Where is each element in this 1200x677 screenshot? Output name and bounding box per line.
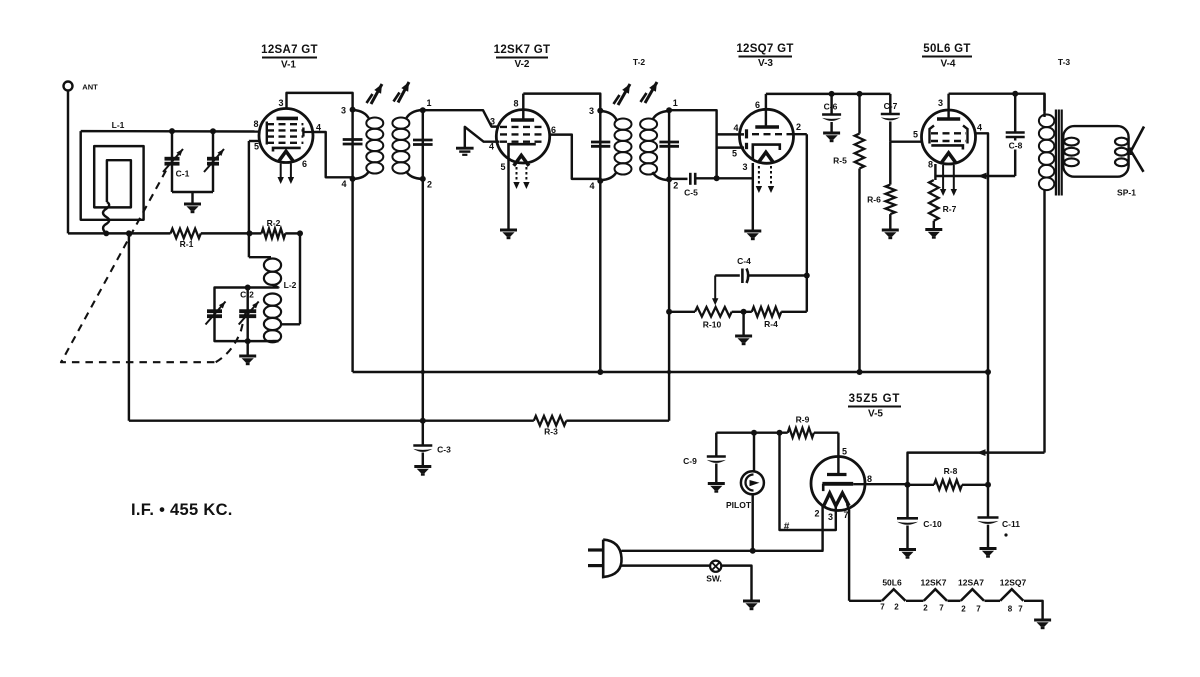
ground C-11 xyxy=(980,547,997,550)
node cathode C-10 xyxy=(905,482,911,488)
svg-text:7: 7 xyxy=(976,605,981,614)
node bus right end xyxy=(985,369,991,375)
wire B+ bus xyxy=(353,371,988,373)
svg-text:50L6 GT: 50L6 GT xyxy=(923,43,970,55)
resistor R-5 xyxy=(858,94,860,134)
svg-text:R-7: R-7 xyxy=(943,204,957,214)
node T1 pin4 xyxy=(350,176,356,182)
wire V4 plate to T3 primary xyxy=(949,94,1045,111)
svg-text:C-3: C-3 xyxy=(437,445,451,455)
tube V3 12SQ7 envelope xyxy=(740,109,794,163)
ground B- xyxy=(743,600,760,603)
node bus AVC crossing a xyxy=(421,370,425,374)
tube V4 plate xyxy=(937,117,960,121)
wire AVC return down-left xyxy=(128,233,130,420)
wire switch to B- ground xyxy=(721,566,751,600)
node grid C-4 tap xyxy=(804,273,810,279)
svg-text:8: 8 xyxy=(513,99,518,109)
tube V2 plate xyxy=(511,118,534,122)
tube V5 plate xyxy=(827,473,847,476)
svg-text:C-4: C-4 xyxy=(737,256,751,266)
IF transformer T1 trimmer arrow a xyxy=(371,84,382,104)
heater 12SK7 xyxy=(924,589,947,601)
resistor R-6 xyxy=(889,142,891,185)
potentiometer R-10 wiper arrow xyxy=(714,276,716,300)
tube V4 heater arrows xyxy=(942,165,944,190)
wire AC line top xyxy=(622,550,824,552)
wire volume line xyxy=(669,311,695,313)
node T1 pin3 xyxy=(350,107,356,113)
node T1 pin1 xyxy=(420,107,426,113)
svg-text:4: 4 xyxy=(589,181,594,191)
svg-text:2: 2 xyxy=(894,603,899,612)
node bus AVC crossing b xyxy=(667,370,671,374)
wire V2 cathode to ground xyxy=(507,161,509,229)
tube V1 grids xyxy=(267,123,303,125)
junction arrow at B+ node xyxy=(977,449,986,456)
wire diode plate stub pin5 xyxy=(717,146,744,148)
ground C-3 xyxy=(414,465,431,468)
node pilot top xyxy=(751,430,757,436)
svg-text:3: 3 xyxy=(490,117,495,127)
svg-text:1: 1 xyxy=(673,98,678,108)
capacitor C-3 xyxy=(413,444,432,447)
wire V5 heater tap staple xyxy=(823,506,836,530)
wire diode plate stub pin4 xyxy=(717,133,744,135)
svg-text:PILOT: PILOT xyxy=(726,500,752,510)
tube V1 heater arrows xyxy=(280,164,282,179)
resistor R-3 xyxy=(534,416,566,426)
node R-8 right xyxy=(985,482,991,488)
ground between R-10 and R-4 xyxy=(742,312,744,335)
tube V3 diode plate b xyxy=(745,143,748,149)
svg-text:2: 2 xyxy=(961,605,966,614)
output transformer T3 secondary coil xyxy=(1064,138,1079,146)
svg-text:12SK7 GT: 12SK7 GT xyxy=(494,44,551,56)
svg-text:I.F. • 455 KC.: I.F. • 455 KC. xyxy=(131,501,233,519)
svg-text:C-7: C-7 xyxy=(884,101,898,111)
ground C-10 xyxy=(899,548,916,551)
wire V1 pin4 to T1 primary bottom xyxy=(313,132,352,177)
IF transformer T2 secondary coil xyxy=(653,111,670,120)
IF transformer T2 trimmer arrow b xyxy=(645,82,657,103)
capacitor C-8 xyxy=(1014,94,1016,132)
tube V2 plate lead to pin 8 xyxy=(522,94,524,120)
wire pilot top lead xyxy=(753,433,755,473)
node C-8 top xyxy=(1012,91,1018,97)
IF transformer T2 internal capacitor xyxy=(591,141,610,144)
svg-text:2: 2 xyxy=(673,181,678,191)
wire R-9 branch down xyxy=(780,433,823,530)
svg-text:C-8: C-8 xyxy=(1009,141,1023,151)
wire V1 pin5 stub xyxy=(249,140,260,142)
wire V2 pin6 screen to B+ xyxy=(550,135,601,179)
tube V3 heater arrows xyxy=(758,166,760,187)
svg-text:C-6: C-6 xyxy=(824,102,838,112)
wire C-7 to V4 grid xyxy=(890,140,922,142)
IF transformer T1 internal capacitor xyxy=(343,138,363,141)
wire cathode to R-8 xyxy=(908,484,935,486)
ground filament string xyxy=(1034,619,1051,622)
IF transformer T1 secondary coil xyxy=(406,110,423,119)
output transformer T3 primary coil xyxy=(1039,115,1054,128)
wire R-4 to grid line xyxy=(781,311,807,313)
antenna terminal ANT xyxy=(64,82,73,91)
svg-text:C-9: C-9 xyxy=(683,456,697,466)
wire V1 pin6 line down to coil tap xyxy=(299,233,301,324)
tube V3 cathode xyxy=(753,145,780,160)
wire T2 pin4 down to B+ bus xyxy=(599,181,601,372)
IF transformer T1 secondary capacitor xyxy=(413,139,433,142)
ground V3 cathode xyxy=(744,230,761,233)
wire V5 pin7 to filament string xyxy=(847,504,849,601)
svg-text:SP-1: SP-1 xyxy=(1117,188,1136,198)
svg-text:R-2: R-2 xyxy=(267,218,281,228)
wire T1 pin2 down to AVC xyxy=(422,179,424,446)
wire main horizontal line left section xyxy=(68,232,171,234)
ground V2 grid return xyxy=(456,147,474,150)
svg-text:3: 3 xyxy=(278,98,283,108)
wire R-9 top line xyxy=(716,431,787,433)
ground R-7 xyxy=(925,228,942,231)
wire V5 cathode pin8 xyxy=(853,483,907,485)
wire V4 cathode to R-7 xyxy=(934,164,936,180)
wire V1 pin5 down to oscillator coil xyxy=(248,141,250,257)
node T2 pin2 xyxy=(666,176,672,182)
resistor R-7 xyxy=(929,180,939,221)
svg-text:C-1: C-1 xyxy=(176,169,190,179)
tube V4 beam plate left xyxy=(930,126,935,144)
svg-text:3: 3 xyxy=(589,106,594,116)
tube V3 plate lead pin6 xyxy=(765,94,767,127)
svg-text:2: 2 xyxy=(427,180,432,190)
wire filament 2-3 xyxy=(948,600,961,602)
loop antenna L-1 xyxy=(81,131,144,220)
tube V4 cathode xyxy=(931,145,963,149)
tube V5 35Z5 envelope xyxy=(811,457,865,511)
svg-text:12SK7: 12SK7 xyxy=(921,578,947,588)
resistor R-8 xyxy=(934,480,962,490)
svg-text:4: 4 xyxy=(977,123,982,133)
node C-6 top xyxy=(829,91,835,97)
svg-text:C-5: C-5 xyxy=(684,188,698,198)
svg-text:8: 8 xyxy=(253,119,258,129)
svg-text:2: 2 xyxy=(796,122,801,132)
tube V1 grid bracket left xyxy=(266,122,268,145)
svg-text:50L6: 50L6 xyxy=(882,578,902,588)
tube V4 grids xyxy=(931,132,966,134)
tube V1 heater xyxy=(278,151,293,162)
potentiometer R-10 xyxy=(695,307,732,317)
tuning capacitor C-1 section b xyxy=(212,131,214,192)
svg-text:12SQ7: 12SQ7 xyxy=(1000,578,1027,588)
wire T2 pin1 to diode plates xyxy=(669,110,717,178)
tube V4 50L6 envelope xyxy=(922,110,976,164)
node T2 pin3 xyxy=(597,108,603,114)
wire filament 3-4 xyxy=(985,600,1001,602)
svg-text:6: 6 xyxy=(755,100,760,110)
tube V3 heater xyxy=(758,152,773,163)
svg-text:8: 8 xyxy=(928,160,933,170)
svg-text:12SQ7 GT: 12SQ7 GT xyxy=(736,43,793,55)
svg-text:L-1: L-1 xyxy=(112,120,125,130)
svg-text:5: 5 xyxy=(254,142,259,152)
speaker SP-1 frame xyxy=(1063,126,1128,177)
capacitor C-7 xyxy=(889,94,891,113)
svg-text:R-6: R-6 xyxy=(867,195,881,205)
svg-text:R-1: R-1 xyxy=(180,239,194,249)
node C-1a top xyxy=(169,128,175,134)
svg-text:ANT: ANT xyxy=(82,83,98,92)
ground R-6 xyxy=(882,229,899,232)
output transformer T3 core xyxy=(1055,110,1057,196)
tuning capacitor C-1 section a xyxy=(171,131,173,192)
heater 12SA7 xyxy=(961,589,984,601)
wire V4 pin4 screen down xyxy=(975,133,988,517)
svg-text:2: 2 xyxy=(814,509,819,519)
label C-8 xyxy=(1006,141,1025,150)
tube V5 cathode xyxy=(822,482,853,486)
svg-text:V-2: V-2 xyxy=(514,59,529,70)
IF transformer T1 trimmer arrow b xyxy=(398,82,409,103)
svg-text:R-3: R-3 xyxy=(544,427,558,437)
node R-5 to bus xyxy=(857,369,863,375)
IF transformer T2 primary line xyxy=(599,111,601,181)
power plug xyxy=(603,540,621,578)
resistor R-2 xyxy=(250,232,262,234)
svg-text:5: 5 xyxy=(913,130,918,140)
svg-text:35Z5 GT: 35Z5 GT xyxy=(849,393,901,405)
tube V1 grid bracket right xyxy=(302,128,304,137)
node AVC return top xyxy=(126,230,132,236)
tube V2 12SK7 envelope xyxy=(496,110,549,163)
IF transformer T1 primary coil xyxy=(353,110,369,119)
wire V3 plate line to C-6 R-5 C-7 xyxy=(766,93,890,95)
variable capacitor C-2 section b xyxy=(246,288,248,342)
node C-2 top xyxy=(245,285,251,291)
wire ANT down to main line xyxy=(67,91,69,234)
svg-text:R-9: R-9 xyxy=(796,415,810,425)
speaker SP-1 cone xyxy=(1131,127,1144,172)
junction arrow at screen line xyxy=(978,173,987,180)
svg-text:4: 4 xyxy=(341,179,346,189)
IF transformer T1 primary line xyxy=(351,110,353,179)
capacitor C-9 xyxy=(715,433,717,456)
wire T1 secondary to V2 grid xyxy=(423,110,498,126)
svg-text:C-10: C-10 xyxy=(923,519,942,529)
ground C-6 xyxy=(823,132,840,135)
node R-1 right / V1 pin5 junction xyxy=(247,230,253,236)
capacitor C-4 line xyxy=(715,274,740,276)
pilot lamp xyxy=(741,471,764,494)
node R-9 branch xyxy=(777,430,783,436)
node R-10 R-4 ground junction xyxy=(741,309,747,315)
svg-text:7: 7 xyxy=(939,604,944,613)
svg-text:V-3: V-3 xyxy=(758,58,773,69)
svg-text:12SA7: 12SA7 xyxy=(958,578,984,588)
svg-text:5: 5 xyxy=(842,447,847,457)
wire AVC line R-3 xyxy=(129,419,534,421)
node AVC C-3 junction xyxy=(420,418,426,424)
IF transformer T2 trimmer arrow a xyxy=(618,84,630,105)
speaker SP-1 voice coil xyxy=(1115,138,1128,146)
svg-text:4: 4 xyxy=(733,123,738,133)
svg-text:T-3: T-3 xyxy=(1058,57,1071,67)
resistor R-4 xyxy=(752,307,781,317)
svg-text:8: 8 xyxy=(1008,605,1013,614)
wire C-1 bottom xyxy=(172,191,213,193)
node T2 pin4 xyxy=(597,178,603,184)
capacitor C-5 xyxy=(669,178,687,180)
svg-text:4: 4 xyxy=(489,142,494,152)
tube V2 grids xyxy=(500,126,546,128)
wire filament 1-2 xyxy=(906,600,924,602)
wire V3 cathode to ground xyxy=(752,163,754,230)
tube V2 cathode xyxy=(509,144,536,160)
wire AC line bottom xyxy=(622,564,711,566)
node T2 pin1 xyxy=(666,107,672,113)
switch SW xyxy=(710,561,721,572)
IF transformer T2 secondary capacitor xyxy=(659,141,679,144)
wire cathode bias line xyxy=(935,175,1015,177)
svg-text:7: 7 xyxy=(1018,605,1023,614)
wire V2 pin4 grid return xyxy=(465,127,500,149)
resistor R-9 xyxy=(788,428,814,438)
svg-text:3: 3 xyxy=(938,98,943,108)
node C-2 bottom xyxy=(245,338,251,344)
tube V4 heater xyxy=(941,153,956,164)
oscillator coil L-2 secondary winding xyxy=(264,294,281,306)
heater 50L6 xyxy=(882,589,906,601)
tube V5 plate lead pin5 xyxy=(837,433,839,475)
IF transformer T1 secondary line xyxy=(422,110,424,179)
node volume top xyxy=(666,309,672,315)
svg-text:5: 5 xyxy=(500,162,505,172)
svg-text:1: 1 xyxy=(427,98,432,108)
node C-5 to diode feed xyxy=(714,175,720,181)
svg-text:2: 2 xyxy=(923,604,928,613)
node C-1b top xyxy=(210,128,216,134)
wire L-1 top line to tube V1 pin 8 xyxy=(81,130,260,133)
ground C-9 xyxy=(708,482,725,485)
wire staple to AC line xyxy=(821,530,823,551)
wire filament string line xyxy=(849,600,881,602)
wire T2 pin2 down volume line xyxy=(668,179,670,420)
wire V3 grid down to volume control xyxy=(806,134,808,312)
oscillator coil L-2 primary winding xyxy=(249,256,271,258)
tube V2 heater arrows xyxy=(516,167,518,183)
output transformer T3 primary line xyxy=(1043,94,1045,117)
padder capacitor C-2 box xyxy=(215,288,279,342)
tube V5 heater xyxy=(824,493,849,506)
svg-text:V-1: V-1 xyxy=(281,60,296,71)
node R-2 right / V1 pin6 junction xyxy=(297,230,303,236)
svg-text:SW.: SW. xyxy=(706,574,722,584)
wire T3 return to cathode node xyxy=(908,453,1045,485)
wire filament to ground xyxy=(1024,601,1043,619)
IF transformer T2 secondary line xyxy=(668,110,670,179)
svg-text:R-8: R-8 xyxy=(944,466,958,476)
variable capacitor C-2 section a xyxy=(207,309,222,313)
tube V3 diode plate a xyxy=(745,129,748,138)
node T1 pin2 xyxy=(420,176,426,182)
svg-text:T-2: T-2 xyxy=(633,57,646,67)
tube V3 plate xyxy=(755,125,779,129)
tube V2 heater xyxy=(514,155,529,166)
node R-5 top xyxy=(857,91,863,97)
tube V4 beam plate right xyxy=(963,126,968,144)
svg-text:8: 8 xyxy=(867,474,872,484)
ground below C-2 xyxy=(246,341,248,355)
wire T1 pin4 down to B+ bus xyxy=(351,179,353,372)
wire R-10 to R-4 xyxy=(732,311,752,313)
tube V1 12SA7 envelope xyxy=(259,109,313,163)
svg-text:6: 6 xyxy=(302,159,307,169)
capacitor C-10 xyxy=(906,485,908,518)
resistor R-1 xyxy=(171,229,201,239)
svg-text:5: 5 xyxy=(732,149,737,159)
tube V1 cathode xyxy=(273,148,301,152)
node pilot to AC line xyxy=(750,548,756,554)
svg-text:R-5: R-5 xyxy=(833,156,847,166)
svg-text:L-2: L-2 xyxy=(284,280,297,290)
svg-text:3: 3 xyxy=(742,162,747,172)
svg-text:R-4: R-4 xyxy=(764,319,778,329)
svg-text:12SA7 GT: 12SA7 GT xyxy=(261,44,318,56)
wire V1 plate to T1 primary xyxy=(287,93,353,110)
tube V1 plate xyxy=(277,117,299,121)
tube V4 plate lead pin3 xyxy=(947,94,949,119)
wire V2 plate to T2 primary xyxy=(523,94,600,111)
svg-text:C-11: C-11 xyxy=(1002,519,1020,529)
svg-text:#: # xyxy=(784,522,790,533)
heater 12SQ7 xyxy=(1000,589,1023,601)
capacitor C-6 xyxy=(830,94,832,114)
ground V2 cathode xyxy=(500,229,517,232)
capacitor C-11 xyxy=(978,516,999,519)
svg-text:3: 3 xyxy=(341,106,346,116)
svg-text:7: 7 xyxy=(843,510,848,520)
wire pilot bottom lead xyxy=(751,494,753,551)
svg-text:3: 3 xyxy=(828,512,833,522)
IF transformer T2 primary coil xyxy=(600,111,616,120)
svg-text:R-10: R-10 xyxy=(703,320,722,330)
dashed gang tuning line xyxy=(61,171,216,363)
svg-text:V-5: V-5 xyxy=(868,409,883,420)
ground below C-1 xyxy=(191,192,193,204)
svg-text:V-4: V-4 xyxy=(940,59,955,70)
tube V3 grid xyxy=(752,133,789,135)
svg-text:7: 7 xyxy=(880,603,885,612)
wire V3 grid exit pin2 xyxy=(789,133,807,135)
node T2 primary to bus xyxy=(597,369,603,375)
